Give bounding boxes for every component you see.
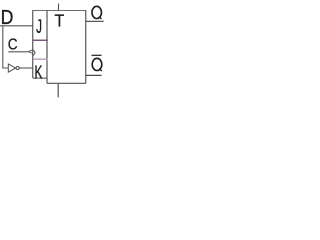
label Q-bar output tail — [99, 68, 102, 71]
wire Q-bar output — [86, 74, 102, 76]
T flip-flop box bottom edge — [47, 82, 86, 84]
node purple wire J row — [33, 39, 48, 41]
JK flip-flop narrow box left edge — [32, 10, 34, 78]
inverter U1 bubble — [16, 66, 19, 69]
arrowhead on C wire at box edge — [28, 50, 33, 53]
wire D input — [0, 25, 33, 27]
svg-text:T: T — [54, 11, 64, 31]
wire branch from D down to inverter — [3, 26, 8, 68]
overline of Q-bar — [92, 54, 102, 56]
label Q output ring — [92, 6, 102, 18]
wire stub bottom — [57, 83, 59, 97]
wire C clock input — [8, 51, 27, 53]
label Q output tail — [99, 16, 102, 19]
svg-text:D: D — [1, 7, 14, 30]
box top edge — [33, 10, 86, 12]
T flip-flop box left edge — [46, 10, 48, 83]
wire Q output — [86, 20, 104, 22]
label Q-bar output ring — [92, 58, 102, 70]
svg-text:J: J — [36, 17, 42, 38]
wire stub top T input — [58, 4, 60, 11]
JK flip-flop narrow box bottom edge — [33, 77, 47, 79]
svg-text:K: K — [35, 63, 43, 83]
wire inverter output to K — [19, 67, 33, 69]
T flip-flop box right edge — [85, 10, 87, 83]
node mauve wire K row — [33, 58, 48, 60]
svg-text:C: C — [8, 37, 18, 54]
clock edge chevron inside box — [33, 50, 35, 56]
inverter U1 triangle — [8, 64, 15, 72]
